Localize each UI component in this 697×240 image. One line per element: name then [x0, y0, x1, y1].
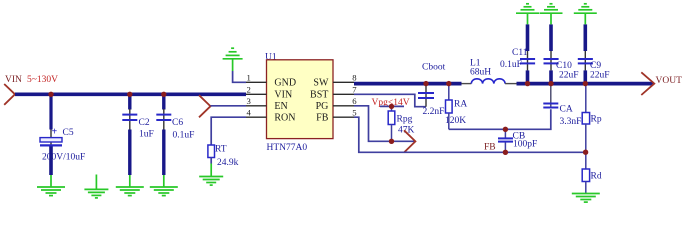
- ground below RT: [199, 164, 223, 186]
- svg-text:GND: GND: [274, 78, 296, 89]
- svg-text:VOUT: VOUT: [656, 76, 683, 86]
- pin 8: [333, 81, 354, 83]
- capacitor CB: [498, 129, 537, 152]
- svg-text:22uF: 22uF: [559, 71, 579, 81]
- svg-text:22uF: 22uF: [590, 71, 610, 81]
- ground above C9: [574, 4, 597, 25]
- resistor Rp: [582, 85, 602, 152]
- svg-text:VIN: VIN: [5, 75, 22, 85]
- ground above C10: [540, 4, 563, 25]
- pin 7: [333, 93, 354, 95]
- capacitor C6: [156, 94, 194, 175]
- svg-text:C5: C5: [63, 128, 74, 138]
- wire C2 bottom: [128, 130, 131, 176]
- svg-text:Rd: Rd: [591, 172, 602, 182]
- node Cboot/SW: [423, 81, 428, 86]
- svg-text:2.2nF: 2.2nF: [423, 107, 445, 117]
- pin 5: [333, 116, 354, 118]
- svg-text:C11: C11: [512, 48, 528, 58]
- inductor L1: [462, 58, 517, 83]
- svg-text:RA: RA: [454, 99, 467, 109]
- port VIN arrow: [4, 84, 15, 105]
- svg-text:24.9k: 24.9k: [217, 158, 239, 168]
- port VOUT arrow: [641, 72, 654, 95]
- svg-text:Cboot: Cboot: [422, 63, 446, 73]
- wire C6 bottom: [162, 130, 165, 176]
- node C6/bus: [161, 92, 166, 97]
- capacitor Cboot: [418, 63, 446, 118]
- svg-text:+: +: [52, 127, 58, 138]
- svg-text:68uH: 68uH: [470, 67, 491, 77]
- node RA/SW: [446, 81, 451, 86]
- svg-text:CA: CA: [560, 105, 573, 115]
- pin 2: [246, 93, 267, 95]
- op-amp U1 HTN77A0: [246, 52, 357, 152]
- wire VOUT thick: [517, 82, 654, 86]
- junction dots: [48, 81, 588, 155]
- svg-text:VIN: VIN: [274, 90, 292, 101]
- svg-text:SW: SW: [313, 78, 329, 89]
- pin 4: [246, 116, 267, 118]
- wire PG rail: [354, 106, 415, 142]
- node C10/VOUT: [548, 81, 553, 86]
- svg-text:6: 6: [352, 96, 357, 106]
- node Rp/Rd/FB: [583, 150, 588, 155]
- svg-text:PG: PG: [316, 101, 329, 112]
- ground below C5: [37, 175, 65, 196]
- svg-text:100pF: 100pF: [513, 140, 537, 150]
- resistor RA: [445, 85, 467, 130]
- svg-text:5: 5: [352, 108, 356, 118]
- svg-text:200V/10uF: 200V/10uF: [42, 152, 85, 162]
- svg-text:5~130V: 5~130V: [27, 75, 58, 85]
- svg-text:3: 3: [247, 96, 251, 106]
- svg-text:1uF: 1uF: [139, 129, 154, 139]
- ground above C11: [516, 4, 539, 25]
- svg-text:FB: FB: [316, 113, 329, 124]
- svg-text:0.1uF: 0.1uF: [500, 60, 522, 70]
- wire C6 top: [162, 94, 165, 109]
- wire RA-CA rail: [449, 109, 551, 129]
- wire Vpg stub: [380, 105, 404, 107]
- port arrow PG: [404, 130, 415, 152]
- node Rpg/PG rail: [389, 139, 394, 144]
- wire C5 bottom: [49, 147, 53, 176]
- capacitor C10: [544, 24, 579, 82]
- svg-text:C2: C2: [139, 118, 150, 128]
- wire C5 top: [49, 94, 52, 129]
- node Rpg top: [389, 104, 394, 109]
- svg-text:RT: RT: [215, 145, 227, 155]
- capacitor C2: [122, 94, 153, 175]
- svg-text:47K: 47K: [398, 126, 415, 136]
- svg-text:Rp: Rp: [591, 115, 602, 125]
- wire BST to Cboot: [354, 94, 426, 106]
- svg-text:C6: C6: [172, 118, 183, 128]
- wire SW thick: [354, 82, 462, 86]
- resistor Rpg: [388, 106, 414, 141]
- port arrow EN: [199, 95, 211, 117]
- svg-text:1: 1: [247, 73, 251, 83]
- svg-text:EN: EN: [274, 101, 287, 112]
- wire C2 top: [128, 94, 131, 109]
- svg-text:BST: BST: [310, 90, 328, 101]
- node C2/bus: [127, 92, 132, 97]
- wire main VIN bus: [15, 93, 246, 97]
- node C9/VOUT: [583, 81, 588, 86]
- svg-text:Rpg: Rpg: [397, 115, 413, 125]
- svg-text:HTN77A0: HTN77A0: [267, 143, 308, 153]
- svg-text:2: 2: [247, 85, 251, 95]
- pin 3: [246, 105, 267, 107]
- wire EN to pin3: [211, 105, 247, 107]
- node CB top: [503, 127, 508, 132]
- capacitor C5: [40, 94, 85, 175]
- svg-text:C9: C9: [590, 61, 601, 71]
- floating ground: [84, 175, 108, 198]
- svg-text:4: 4: [247, 108, 252, 118]
- svg-text:3.3nF: 3.3nF: [560, 117, 582, 127]
- ground above pin1: [223, 48, 243, 71]
- resistor Rd: [582, 152, 602, 193]
- wire FB rail: [354, 117, 585, 152]
- wire ground to pin1: [233, 71, 246, 82]
- wire RON pin4 to RT: [211, 117, 246, 145]
- svg-text:RON: RON: [274, 113, 295, 124]
- ground below Rd: [572, 194, 600, 203]
- node CB/FB rail: [503, 150, 508, 155]
- svg-text:7: 7: [352, 85, 357, 95]
- pin 6: [333, 105, 354, 107]
- node C11/VOUT: [525, 81, 530, 86]
- ground below C6: [150, 175, 178, 196]
- capacitor C9: [578, 24, 610, 82]
- node C5/bus: [48, 92, 53, 97]
- ground below C2: [116, 175, 144, 196]
- svg-text:0.1uF: 0.1uF: [173, 130, 195, 140]
- capacitor CA: [543, 85, 581, 127]
- svg-text:FB: FB: [484, 142, 496, 152]
- wire RT bottom: [210, 158, 212, 164]
- capacitor C11: [500, 24, 535, 82]
- resistor RT: [208, 145, 239, 169]
- svg-text:C10: C10: [556, 61, 572, 71]
- svg-text:8: 8: [352, 73, 357, 83]
- pin 1: [246, 81, 267, 83]
